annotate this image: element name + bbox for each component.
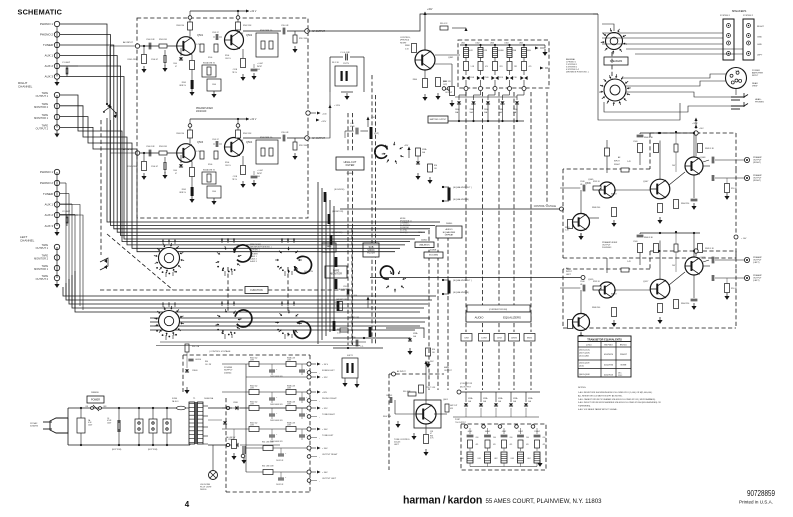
svg-text:R60Z 10K: R60Z 10K — [383, 416, 392, 418]
svg-text:R6 1.1K: R6 1.1K — [332, 62, 340, 64]
svg-text:H (HENRIES).: H (HENRIES). — [578, 406, 591, 408]
svg-text:+ 5PG: + 5PG — [334, 105, 340, 107]
svg-text:(CURRENT FROM): (CURRENT FROM) — [489, 309, 508, 311]
svg-text:INPUT: INPUT — [257, 66, 262, 68]
svg-text:60FT1: 60FT1 — [347, 355, 354, 357]
svg-text:L C6: L C6 — [350, 123, 354, 125]
svg-text:L802: L802 — [475, 43, 479, 45]
svg-text:R504A DRN 1%: R504A DRN 1% — [203, 169, 216, 172]
svg-text:R500 1M: R500 1M — [176, 25, 184, 27]
svg-text:R849 5.1K: R849 5.1K — [705, 248, 715, 250]
svg-text:R602 562: R602 562 — [250, 423, 257, 425]
svg-text:HEAD-: HEAD- — [755, 98, 762, 101]
svg-text:POINT: POINT — [455, 419, 460, 421]
svg-text:C50B: C50B — [470, 77, 474, 79]
svg-text:PHONO 1: PHONO 1 — [40, 170, 53, 174]
svg-text:R846 240: R846 240 — [592, 207, 600, 209]
svg-text:(EQUALIZER OUT ): (EQUALIZER OUT ) — [453, 186, 472, 189]
svg-text:INPUT: INPUT — [614, 161, 621, 163]
svg-text:200844: 200844 — [224, 372, 232, 374]
svg-text:R60 1.8K 1/2W: R60 1.8K 1/2W — [262, 466, 274, 468]
svg-text:470: 470 — [493, 444, 496, 446]
svg-text:R505: R505 — [182, 82, 186, 84]
svg-text:PHONO 1: PHONO 1 — [40, 22, 53, 26]
svg-text:(SOURCE): (SOURCE) — [334, 189, 345, 191]
svg-text:Q506: Q506 — [585, 183, 591, 185]
svg-text:SUPPLY: SUPPLY — [224, 370, 233, 372]
svg-text:POWER: POWER — [224, 367, 233, 369]
svg-text:+ 30 V: + 30 V — [322, 364, 329, 366]
svg-text:OUTPUT RIGHT: OUTPUT RIGHT — [322, 454, 338, 456]
svg-text:R60A 5.6K: R60A 5.6K — [287, 401, 296, 404]
svg-text:R56: R56 — [434, 165, 437, 167]
svg-text:90728859: 90728859 — [747, 489, 775, 498]
svg-text:R505: R505 — [182, 189, 186, 191]
svg-text:AF INPUT: AF INPUT — [123, 41, 134, 44]
svg-text:MONITOR: MONITOR — [330, 272, 342, 275]
svg-text:R512 56K: R512 56K — [299, 38, 308, 40]
svg-text:+ 14V: + 14V — [741, 238, 747, 240]
svg-text:R60: R60 — [205, 361, 208, 363]
svg-text:200846 20A: 200846 20A — [204, 397, 214, 400]
svg-text:C510 UF: C510 UF — [281, 25, 289, 27]
svg-text:+32 V: +32 V — [250, 118, 257, 121]
svg-text:L801: L801 — [477, 458, 481, 460]
svg-text:FUSES LEFT: FUSES LEFT — [322, 370, 335, 372]
svg-text:R506: R506 — [208, 57, 212, 59]
svg-text:PREAMPLIFIER: PREAMPLIFIER — [196, 107, 213, 110]
svg-text:R849 5.1K: R849 5.1K — [705, 148, 715, 150]
svg-text:+32V: +32V — [427, 9, 433, 11]
svg-text:L804: L804 — [527, 458, 531, 460]
svg-text:LEFT: LEFT — [394, 444, 400, 446]
svg-text:R602 562: R602 562 — [250, 386, 257, 388]
svg-text:C60: C60 — [543, 437, 546, 439]
svg-text:C509: C509 — [633, 241, 638, 243]
svg-text:C506: C506 — [212, 191, 216, 193]
svg-text:C502 47: C502 47 — [212, 139, 219, 141]
svg-text:R807 470: R807 470 — [443, 81, 451, 83]
svg-text:PREAMPLIFIER: PREAMPLIFIER — [602, 241, 618, 244]
svg-text:C60: C60 — [476, 437, 479, 439]
svg-text:47: 47 — [175, 173, 177, 175]
svg-text:Q507: Q507 — [643, 181, 649, 183]
svg-text:20084B: 20084B — [430, 250, 437, 252]
svg-text:TONE LEFT: TONE LEFT — [322, 435, 334, 437]
svg-text:INPUT: INPUT — [566, 271, 573, 273]
svg-text:(BALANCE): (BALANCE) — [419, 243, 429, 246]
svg-text:R60 1.8K 1/2W: R60 1.8K 1/2W — [262, 442, 274, 444]
svg-text:L805: L805 — [519, 43, 523, 45]
svg-text:SPEAKERS: SPEAKERS — [732, 9, 747, 13]
svg-text:R804: R804 — [413, 79, 417, 81]
svg-text:15KHZ: 15KHZ — [534, 431, 540, 433]
svg-text:VIEW: VIEW — [752, 86, 757, 88]
svg-text:C504 47: C504 47 — [151, 59, 158, 61]
svg-text:R533 10: R533 10 — [593, 281, 600, 283]
svg-text:Q505: Q505 — [588, 179, 594, 181]
svg-text:R60A 5.6K: R60A 5.6K — [287, 422, 296, 425]
svg-text:14KHZ: 14KHZ — [511, 338, 518, 340]
svg-text:C4 L7W: C4 L7W — [205, 364, 212, 366]
svg-text:4: 4 — [185, 500, 190, 509]
svg-text:C60 82 UF: C60 82 UF — [276, 460, 283, 462]
svg-text:Q518: Q518 — [700, 257, 706, 259]
svg-text:470: 470 — [529, 66, 532, 68]
svg-text:7R 1%: 7R 1% — [232, 179, 238, 181]
svg-text:(EQUALIZER IN): (EQUALIZER IN) — [453, 291, 469, 294]
svg-text:(N) OUTPUT: (N) OUTPUT — [460, 387, 472, 389]
svg-text:470: 470 — [485, 66, 488, 68]
svg-text:R50 32: R50 32 — [731, 188, 737, 190]
svg-text:L803: L803 — [510, 458, 514, 460]
svg-text:BRN 1%: BRN 1% — [180, 192, 187, 194]
svg-text:C60B 1000UF 50V: C60B 1000UF 50V — [270, 404, 283, 406]
svg-text:C60 UF: C60 UF — [386, 395, 393, 397]
svg-text:OUTPUT 1: OUTPUT 1 — [36, 95, 49, 98]
svg-text:R602 562: R602 562 — [250, 358, 257, 360]
svg-text:47: 47 — [175, 66, 177, 68]
svg-text:OUTPUT 1: OUTPUT 1 — [36, 247, 49, 250]
svg-text:470: 470 — [476, 444, 479, 446]
svg-text:Q502-04-05,: Q502-04-05, — [579, 350, 591, 352]
svg-text:+14V: +14V — [699, 128, 704, 130]
svg-text:REAR: REAR — [752, 82, 758, 85]
svg-text:R60A 5.6K: R60A 5.6K — [287, 385, 296, 388]
svg-text:(OUT): (OUT) — [374, 133, 379, 135]
svg-text:55 AMES COURT, PLAINVIEW, N.Y: 55 AMES COURT, PLAINVIEW, N.Y. 11803 — [486, 498, 602, 505]
svg-text:CR60S: CR60S — [192, 370, 198, 372]
svg-text:PHONO 2: PHONO 2 — [40, 181, 53, 185]
svg-text:harman / kardon: harman / kardon — [403, 495, 482, 507]
svg-text:R502 13K: R502 13K — [243, 133, 252, 135]
svg-text:6.AUX 3: 6.AUX 3 — [250, 260, 257, 263]
svg-text:1504: 1504 — [173, 63, 177, 65]
svg-text:1/2W: 1/2W — [287, 404, 291, 406]
svg-text:AF OUTPUT: AF OUTPUT — [312, 30, 326, 33]
svg-text:TRANSISTOR EQUIVALENTS: TRANSISTOR EQUIVALENTS — [587, 338, 622, 341]
svg-text:MONITOR 2: MONITOR 2 — [34, 106, 48, 109]
svg-text:NONE: NONE — [621, 365, 627, 367]
svg-text:Q801: Q801 — [448, 57, 454, 59]
svg-text:OUTPUT: OUTPUT — [445, 92, 453, 94]
svg-text:(PHONO): (PHONO) — [400, 40, 409, 42]
svg-text:+32V: +32V — [321, 121, 327, 123]
svg-text:DEFEAT: DEFEAT — [445, 233, 454, 236]
svg-text:R502 13K: R502 13K — [243, 25, 252, 27]
svg-text:200840: 200840 — [446, 223, 452, 225]
svg-text:CONTROL,: CONTROL, — [400, 37, 411, 39]
svg-text:NOTES:: NOTES: — [578, 387, 587, 389]
svg-text:AF OUTPUT: AF OUTPUT — [312, 137, 326, 140]
svg-text:Q517: Q517 — [643, 281, 649, 283]
svg-text:MONITOR 1: MONITOR 1 — [34, 268, 48, 271]
svg-text:R844 290: R844 290 — [681, 303, 689, 305]
svg-text:TUNER: TUNER — [43, 192, 53, 196]
svg-text:LEFT: LEFT — [566, 274, 572, 276]
svg-text:L803: L803 — [490, 43, 494, 45]
svg-text:40027613: 40027613 — [604, 375, 614, 377]
svg-text:160HZ: 160HZ — [485, 431, 491, 433]
svg-text:4.ALL VOLTAGES TAKEN WITH'V' S: 4.ALL VOLTAGES TAKEN WITH'V' SIGNAL. — [578, 408, 618, 411]
svg-text:117VAC: 117VAC — [30, 422, 38, 425]
svg-text:+32 V: +32 V — [692, 123, 698, 125]
svg-text:AUX 1: AUX 1 — [45, 203, 54, 207]
svg-text:ALL RESISTORS 1/4 WATT EXCEPT: ALL RESISTORS 1/4 WATT EXCEPT AS NOTED. — [578, 394, 623, 397]
svg-text:470: 470 — [510, 444, 513, 446]
svg-text:C510 UF: C510 UF — [281, 132, 289, 134]
svg-text:+ 30V: + 30V — [322, 429, 328, 431]
svg-text:1504: 1504 — [173, 170, 177, 172]
svg-text:1/2W: 1/2W — [250, 360, 254, 362]
svg-text:L802: L802 — [494, 458, 498, 460]
svg-text:TONE RIGHT: TONE RIGHT — [322, 414, 336, 416]
svg-text:Q502: Q502 — [246, 34, 253, 37]
svg-text:PROT 3.3K: PROT 3.3K — [426, 387, 436, 389]
svg-text:+ 34V: + 34V — [322, 472, 328, 474]
svg-text:R60 10M: R60 10M — [403, 391, 411, 393]
svg-text:MAIN: MAIN — [444, 366, 449, 369]
svg-text:20020449: 20020449 — [196, 111, 207, 113]
svg-text:(SHOWN IN POSITION 1 ): (SHOWN IN POSITION 1 ) — [566, 72, 589, 74]
svg-text:+ 0.007: + 0.007 — [257, 170, 263, 172]
svg-text:L801: L801 — [461, 43, 465, 45]
svg-text:130 1%: 130 1% — [225, 58, 231, 60]
svg-text:AUDIO: AUDIO — [446, 228, 453, 231]
svg-text:470: 470 — [543, 444, 546, 446]
svg-text:R504: R504 — [225, 55, 229, 57]
svg-text:OUTPUT 2: OUTPUT 2 — [36, 128, 49, 131]
svg-text:2N8805D: 2N8805D — [91, 392, 100, 394]
svg-text:C60B 1000UF 50V: C60B 1000UF 50V — [270, 420, 283, 422]
svg-text:C50B: C50B — [485, 77, 489, 79]
svg-text:50/60HZ: 50/60HZ — [30, 426, 39, 428]
svg-text:POWER: POWER — [91, 398, 100, 401]
svg-text:Q508: Q508 — [700, 157, 706, 159]
svg-text:C504 47: C504 47 — [151, 166, 158, 168]
svg-text:R501 470K: R501 470K — [128, 59, 138, 61]
svg-text:C60 82 UF: C60 82 UF — [276, 484, 283, 486]
svg-text:EMITTER OUTPUT: EMITTER OUTPUT — [430, 119, 447, 121]
svg-text:2977S: 2977S — [343, 63, 349, 65]
svg-text:R501 470K: R501 470K — [128, 166, 138, 168]
svg-text:AUX 3: AUX 3 — [45, 75, 54, 79]
svg-text:OUTPUT 2: OUTPUT 2 — [36, 278, 49, 281]
svg-text:R60A 5.6K: R60A 5.6K — [287, 357, 296, 360]
svg-text:R533 10: R533 10 — [593, 181, 600, 183]
svg-text:EQUALIZER: EQUALIZER — [443, 231, 456, 234]
svg-text:2N3417: 2N3417 — [620, 354, 628, 356]
svg-text:SCHEMATIC: SCHEMATIC — [18, 8, 63, 17]
svg-text:CHANNEL: CHANNEL — [20, 239, 35, 243]
svg-text:229C: 229C — [618, 375, 623, 377]
svg-text:20028443: 20028443 — [602, 247, 612, 249]
svg-text:(EQUALIZER OUT ): (EQUALIZER OUT ) — [453, 279, 472, 282]
svg-text:45025870: 45025870 — [604, 354, 614, 356]
svg-text:(EQUALIZER IN): (EQUALIZER IN) — [453, 198, 469, 201]
svg-text:BRN 1%: BRN 1% — [180, 85, 187, 87]
svg-text:PHONES: PHONES — [755, 102, 764, 104]
svg-text:FUSE: FUSE — [172, 398, 178, 400]
svg-text:R506: R506 — [208, 164, 212, 166]
svg-text:INPUT: INPUT — [752, 75, 759, 77]
svg-text:LEFT: LEFT — [757, 55, 763, 57]
svg-text:R602 562: R602 562 — [250, 402, 257, 404]
svg-text:MONITOR 1: MONITOR 1 — [34, 117, 48, 120]
svg-text:1/2W: 1/2W — [250, 425, 254, 427]
svg-text:RIGHT: RIGHT — [757, 26, 764, 28]
svg-text:SYSTEM 2: SYSTEM 2 — [743, 15, 754, 17]
svg-text:CONTROL VOLTAGE: CONTROL VOLTAGE — [534, 205, 557, 208]
svg-text:FILTER: FILTER — [346, 163, 355, 167]
svg-text:R504A DRN 1%: R504A DRN 1% — [203, 62, 216, 65]
svg-text:+ 0.007: + 0.007 — [257, 63, 263, 65]
svg-text:Q507,Q508,: Q507,Q508, — [579, 353, 590, 355]
svg-text:4M7 OUT: 4M7 OUT — [450, 405, 457, 407]
svg-text:470: 470 — [526, 444, 529, 446]
svg-text:(BOTTOM): (BOTTOM) — [112, 449, 122, 451]
svg-text:Q503: Q503 — [197, 141, 204, 144]
svg-text:C509: C509 — [633, 141, 638, 143]
svg-text:CR60: CR60 — [233, 402, 238, 404]
svg-text:EN NO.: EN NO. — [620, 345, 628, 347]
svg-text:( CONTROL VOLTAGE: ( CONTROL VOLTAGE — [209, 350, 231, 353]
svg-text:2R1: 2R1 — [500, 66, 503, 68]
svg-text:R503 1M: R503 1M — [159, 39, 167, 41]
svg-text:SYSTEM 1: SYSTEM 1 — [720, 15, 731, 17]
svg-text:EQUALIZERS: EQUALIZERS — [503, 316, 521, 320]
svg-text:C500 1UF: C500 1UF — [146, 39, 155, 41]
svg-text:PHONO 2: PHONO 2 — [40, 33, 53, 37]
svg-text:2R1: 2R1 — [514, 66, 517, 68]
svg-text:+30V: +30V — [429, 361, 434, 363]
svg-text:Q504: Q504 — [246, 141, 253, 144]
svg-text:RIGHT: RIGHT — [614, 164, 621, 166]
svg-text:(LEFT): (LEFT) — [753, 280, 760, 282]
svg-text:TUNER: TUNER — [43, 43, 53, 47]
svg-text:Q511,Q801: Q511,Q801 — [579, 356, 590, 358]
svg-text:R504: R504 — [225, 162, 229, 164]
svg-text:AUX 2: AUX 2 — [45, 213, 54, 217]
svg-text:200200: 200200 — [200, 489, 206, 491]
svg-text:AUX 1: AUX 1 — [45, 54, 54, 58]
svg-text:OUTPUT LEFT: OUTPUT LEFT — [322, 478, 337, 480]
svg-text:GND: GND — [757, 44, 762, 46]
svg-text:3.ALL INDUCTORS IN MICROHENRIE: 3.ALL INDUCTORS IN MICROHENRIES UNLESS F… — [578, 401, 661, 404]
svg-text:R503 1M: R503 1M — [159, 146, 167, 148]
svg-text:AUX 3: AUX 3 — [45, 224, 54, 228]
svg-text:C506: C506 — [212, 84, 216, 86]
svg-text:R50 32: R50 32 — [731, 288, 737, 290]
svg-text:C60: C60 — [510, 437, 513, 439]
svg-text:Q501: Q501 — [197, 34, 204, 37]
svg-text:OUT): OUT) — [443, 84, 448, 86]
svg-text:7R 1%: 7R 1% — [232, 72, 238, 74]
svg-text:130 1%: 130 1% — [225, 165, 231, 167]
svg-text:1/2W: 1/2W — [250, 388, 254, 390]
svg-text:FILTER: FILTER — [367, 253, 375, 255]
svg-text:C2 400P: C2 400P — [62, 211, 71, 213]
svg-text:R80 4.7K: R80 4.7K — [440, 23, 448, 25]
svg-text:INPUT: INPUT — [257, 173, 262, 175]
svg-text:+ 30V: + 30V — [322, 448, 328, 450]
svg-text:L804: L804 — [504, 43, 508, 45]
svg-text:(COLLECTOR: (COLLECTOR — [460, 383, 473, 385]
svg-text:GND: GND — [757, 37, 762, 39]
svg-text:5.L+R(R): 5.L+R(R) — [400, 232, 408, 234]
svg-text:+32 V: +32 V — [250, 10, 257, 13]
svg-text:8KHZ: 8KHZ — [527, 338, 533, 340]
svg-text:AMPLIFIER: AMPLIFIER — [752, 72, 763, 75]
svg-text:(LEFT): (LEFT) — [753, 262, 760, 264]
svg-text:R808: R808 — [405, 45, 410, 47]
svg-text:1/2W: 1/2W — [287, 360, 291, 362]
svg-text:1/2W: 1/2W — [287, 388, 291, 390]
svg-text:R840 3.3K: R840 3.3K — [644, 137, 654, 139]
svg-text:+32V: +32V — [322, 392, 328, 394]
svg-text:PHONO RIGHT: PHONO RIGHT — [322, 398, 337, 400]
svg-text:MAIN: MAIN — [445, 88, 450, 91]
svg-text:CHANNEL: CHANNEL — [18, 85, 33, 89]
svg-text:+ 32V: + 32V — [322, 408, 328, 410]
svg-text:AUX 2: AUX 2 — [45, 64, 54, 68]
svg-text:2A SLO: 2A SLO — [172, 400, 179, 403]
svg-text:R840 3.3K: R840 3.3K — [644, 237, 654, 239]
svg-text:OUTPUT: OUTPUT — [444, 370, 453, 372]
svg-text:Q515: Q515 — [588, 279, 594, 281]
svg-text:L800: L800 — [460, 458, 464, 460]
svg-text:C1 400P: C1 400P — [62, 62, 71, 64]
svg-text:R512 56K: R512 56K — [299, 145, 308, 147]
svg-text:FUNCTION: FUNCTION — [250, 289, 263, 292]
svg-text:INPUT: INPUT — [611, 294, 618, 296]
svg-text:+ 32V: + 32V — [322, 377, 328, 379]
svg-text:AUDIO: AUDIO — [475, 316, 485, 320]
svg-text:(VOLUME): (VOLUME) — [429, 255, 439, 257]
svg-text:1.ALL RESISTORS SHOWN/UNLESS F: 1.ALL RESISTORS SHOWN/UNLESS FOLLOWED BY… — [578, 391, 653, 394]
svg-text:Q NO.: Q NO. — [586, 345, 592, 347]
svg-text:100MH: 100MH — [498, 50, 504, 52]
svg-text:R56: R56 — [432, 349, 435, 351]
svg-text:NMG: NMG — [527, 50, 532, 52]
svg-text:Q506,Q508: Q506,Q508 — [579, 363, 590, 365]
svg-text:L60 800: L60 800 — [195, 359, 201, 361]
svg-text:C500 1UF: C500 1UF — [146, 146, 155, 148]
svg-text:R846 240: R846 240 — [592, 307, 600, 309]
svg-text:C502 47: C502 47 — [212, 32, 219, 34]
svg-text:200840: 200840 — [421, 240, 427, 242]
svg-text:Printed in U.S.A.: Printed in U.S.A. — [739, 500, 773, 505]
svg-text:120HZ: 120HZ — [481, 338, 488, 340]
svg-text:1/2W: 1/2W — [287, 425, 291, 427]
svg-text:INPUT: INPUT — [611, 194, 618, 196]
svg-text:REV.: REV. — [418, 232, 423, 234]
svg-text:(RIGHT): (RIGHT) — [753, 180, 761, 182]
svg-text:2.ALL CAPACITORS IN PICOFARAD: 2.ALL CAPACITORS IN PICOFARAD UNLESS FOL… — [578, 398, 656, 401]
svg-text:(RIGHT): (RIGHT) — [753, 162, 761, 164]
svg-text:HK P/NO: HK P/NO — [604, 345, 613, 347]
svg-text:R844 290: R844 290 — [681, 203, 689, 205]
svg-text:C60: C60 — [526, 437, 529, 439]
svg-text:(BOTTOM): (BOTTOM) — [148, 449, 158, 451]
svg-text:Q601-Q608: Q601-Q608 — [579, 374, 590, 376]
svg-text:40022936: 40022936 — [604, 365, 614, 367]
svg-text:AF INPUT: AF INPUT — [397, 370, 406, 373]
svg-text:MONITOR 2: MONITOR 2 — [34, 258, 48, 261]
svg-text:R500 1M: R500 1M — [176, 133, 184, 135]
svg-text:C60: C60 — [493, 437, 496, 439]
svg-text:1/2W: 1/2W — [250, 404, 254, 406]
